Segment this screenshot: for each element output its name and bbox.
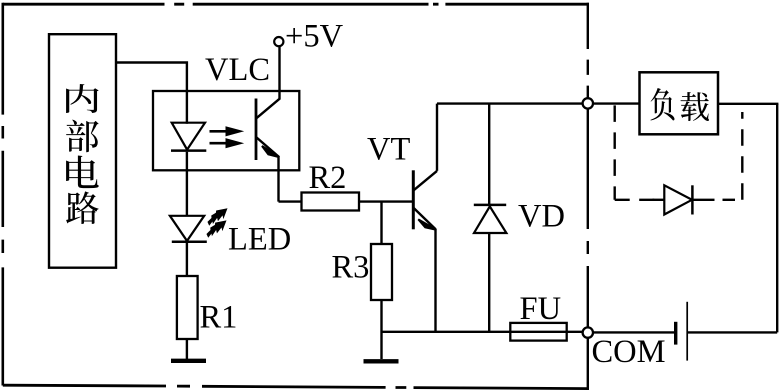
wire R2 to VT base [359,200,413,202]
internal circuit box [49,34,116,268]
wire opto LED cathode to indicator LED [186,152,188,217]
ground under R3 [364,359,399,363]
svg-text:R3: R3 [332,250,370,286]
svg-text:LED: LED [228,222,291,258]
resistor R1 [177,276,198,339]
dashed branch left [614,105,616,199]
svg-text:R2: R2 [309,160,347,196]
fuse FU [510,323,566,341]
wire load to right rail [718,103,778,105]
battery [676,302,688,361]
diode VD [474,205,507,233]
PLC enclosure border bottom [3,385,589,388]
transistor VT [413,170,437,230]
wire LED to R1 [186,242,188,276]
load box [640,72,719,134]
wire emitter to R2 [279,200,302,202]
PLC enclosure border left [1,3,4,386]
phototransistor [256,46,280,201]
wire VT collector to output rail [436,104,438,171]
optocoupler LED [171,123,206,151]
output rail wire [437,102,583,104]
dashed branch bottom left [615,199,656,201]
right rail wire [776,104,778,333]
PLC enclosure border right [587,3,589,389]
wire VT emitter to emitter rail [434,229,436,332]
internal circuit label 内部电路 [66,84,99,224]
wire internal circuit to optocoupler LED [116,63,187,124]
wire VD branch upper [488,104,490,204]
svg-text:COM: COM [592,334,666,370]
optocoupler VLC box [153,91,299,170]
wire VD branch lower [488,233,490,332]
indicator LED [170,216,207,242]
LED light bolts [204,204,232,241]
output terminal node [583,98,593,108]
wire output terminal to load [593,102,640,104]
light coupling arrows [210,126,245,148]
freewheeling diode [653,185,715,214]
wire base junction to R3 [380,202,382,244]
emitter rail wire [382,331,583,333]
svg-text:R1: R1 [200,300,238,336]
PLC enclosure border top (dash-dot breaks) [3,3,589,6]
svg-text:VT: VT [367,132,410,168]
wire battery to right rail [687,331,777,333]
COM terminal node [583,327,593,337]
dashed branch bottom right [723,199,743,201]
load label 负载 [650,88,709,121]
wire R1 to ground [186,339,188,359]
svg-text:VLC: VLC [205,52,270,88]
ground under R1 [171,359,206,363]
svg-text:VD: VD [518,199,565,235]
+5V terminal [274,37,283,46]
dashed branch right [741,112,743,200]
wire COM terminal to battery [593,331,674,333]
resistor R3 [371,244,392,300]
svg-text:+5V: +5V [285,19,344,55]
wire R3 to ground [380,300,382,359]
svg-text:FU: FU [520,291,562,327]
resistor R2 [302,193,360,211]
